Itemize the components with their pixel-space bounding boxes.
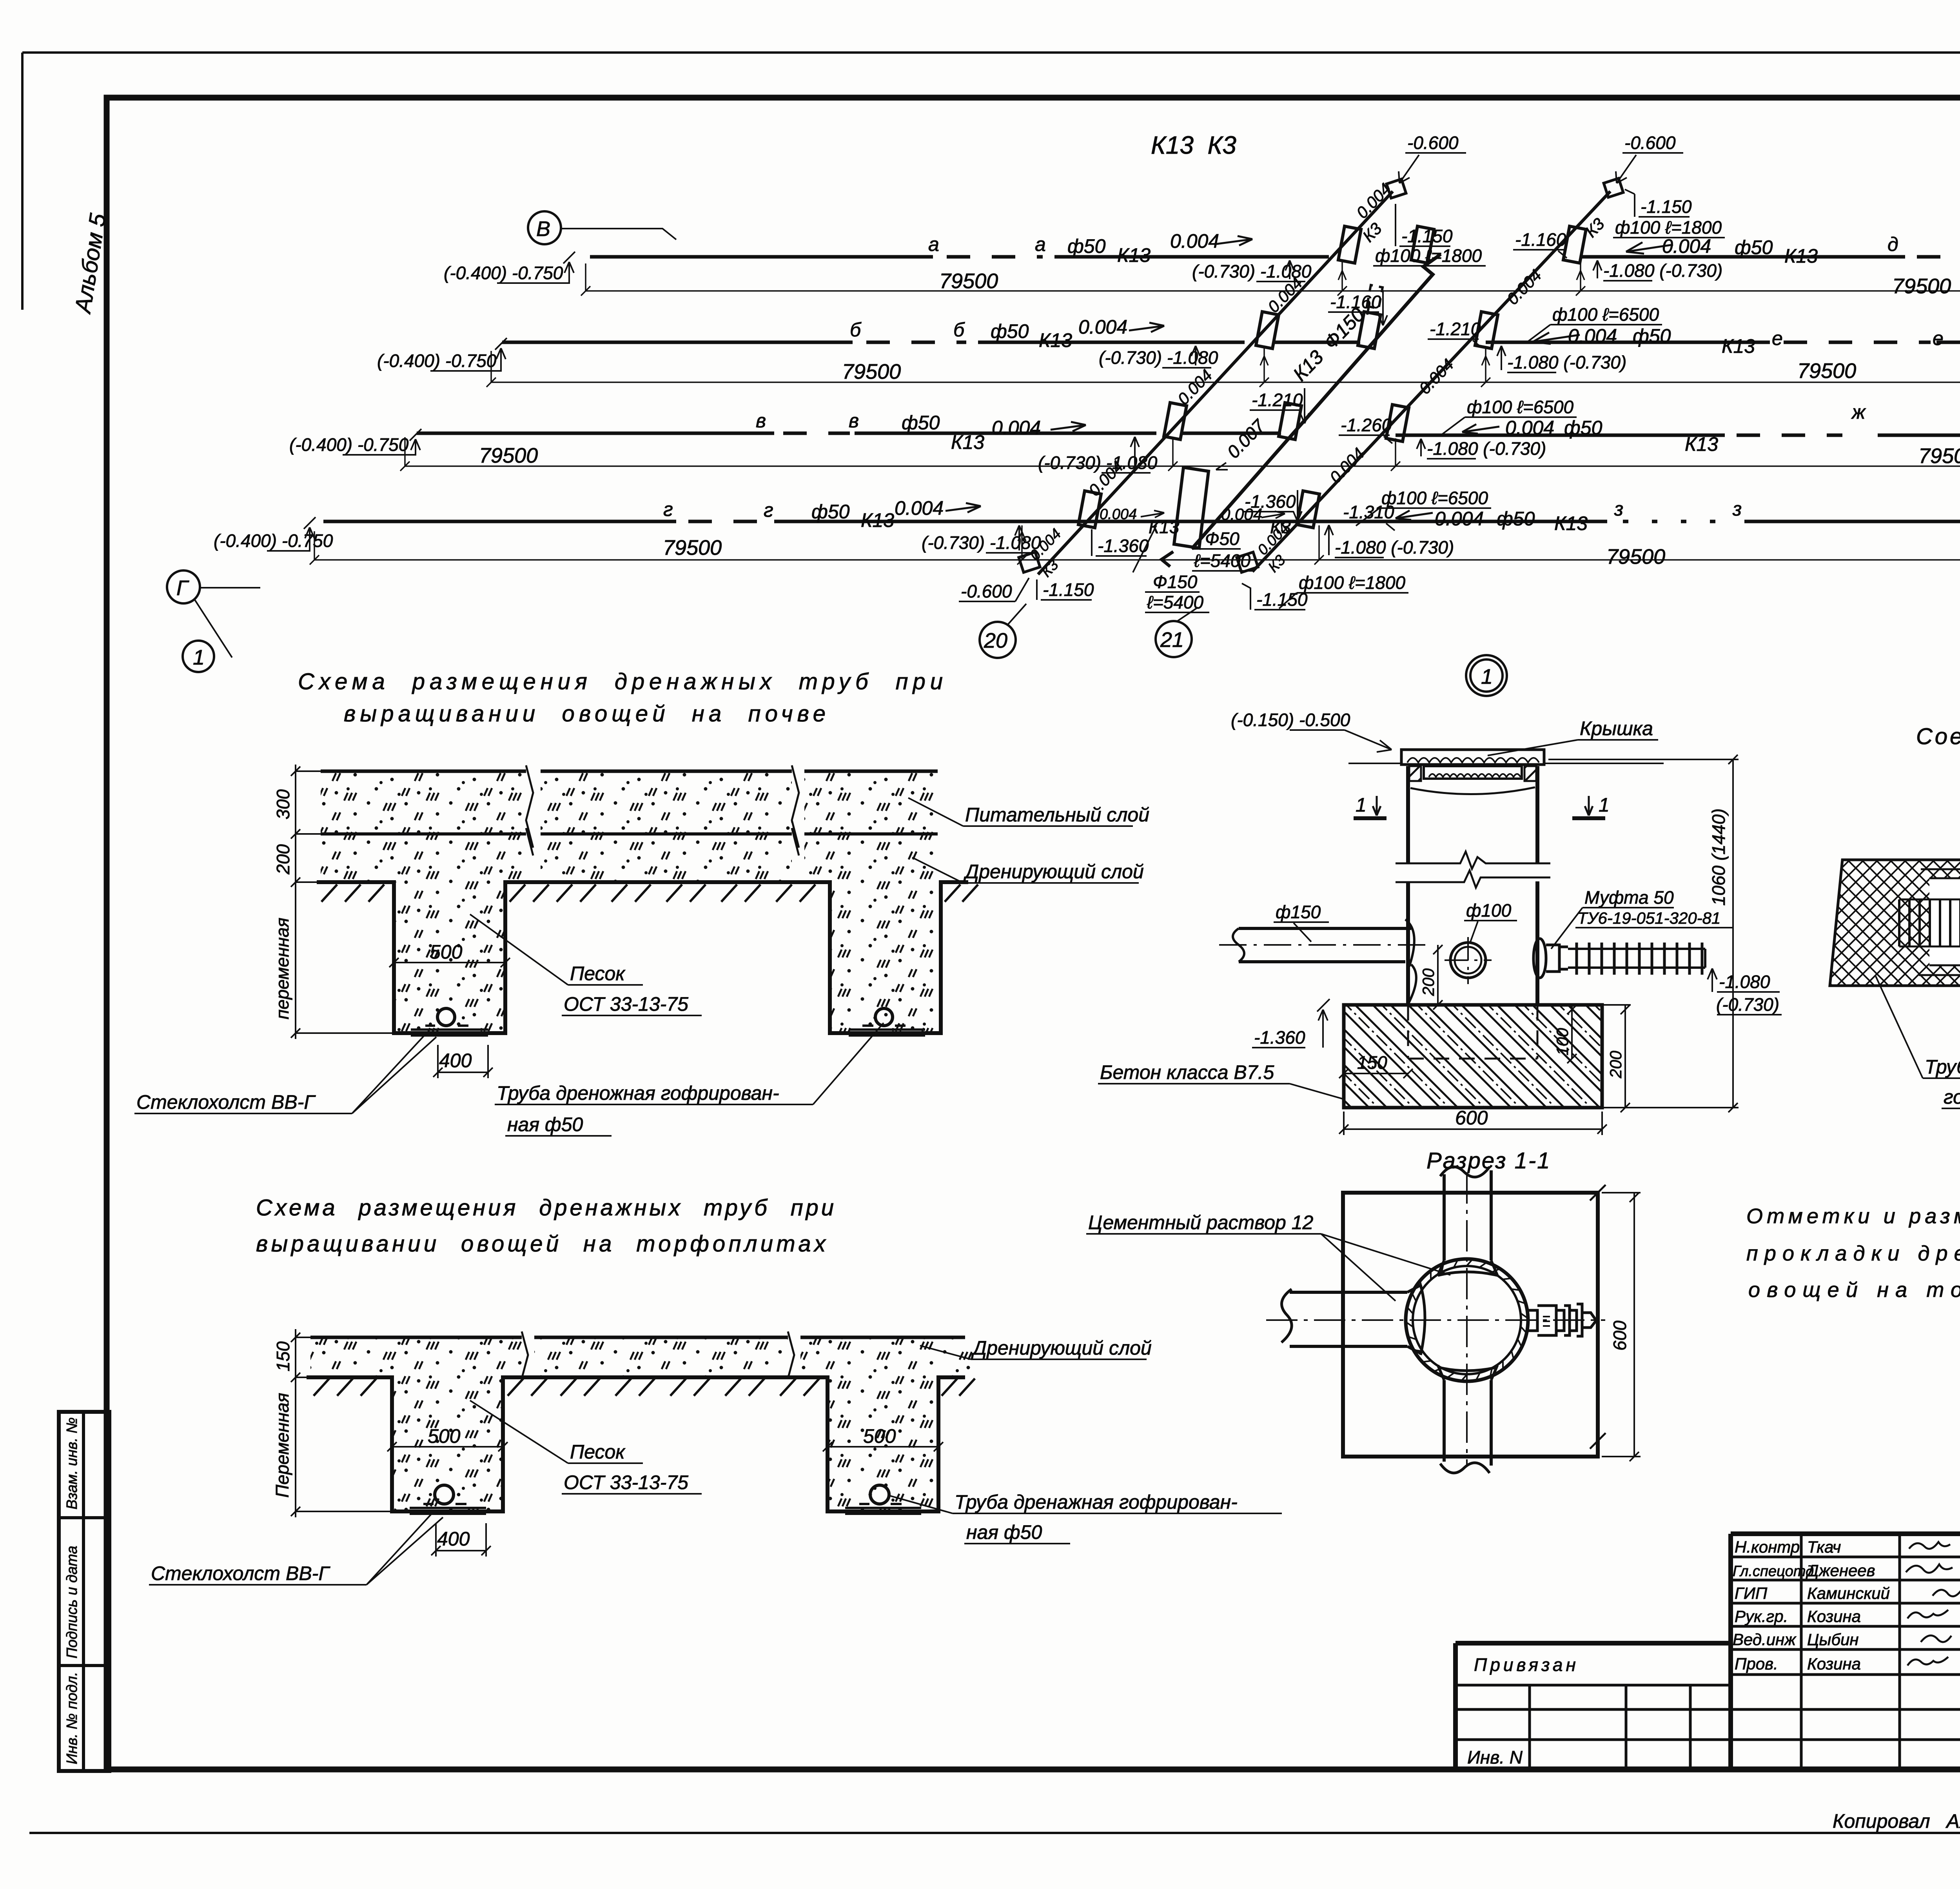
well on right collector at row ж bbox=[1386, 405, 1409, 441]
section 2 top surface line bbox=[310, 1336, 965, 1339]
section 1 surface hatching bbox=[321, 885, 978, 902]
svg-text:Рук.гр.: Рук.гр. bbox=[1735, 1607, 1788, 1626]
svg-text:Н.контр: Н.контр bbox=[1735, 1538, 1800, 1556]
svg-text:0.004: 0.004 bbox=[1505, 417, 1554, 439]
svg-text:Козина: Козина bbox=[1807, 1607, 1861, 1626]
svg-text:ф50: ф50 bbox=[1633, 325, 1671, 347]
svg-text:1: 1 bbox=[1481, 665, 1493, 688]
label (-0.150) -0.500 bbox=[1231, 710, 1392, 752]
collector К13 Ф150 (left, diagonal) bbox=[1161, 254, 1441, 567]
dimension line row в/ж 79500 bbox=[400, 437, 1960, 471]
dim 200 right rotated bbox=[1602, 1005, 1631, 1112]
label -1.160 right bbox=[1513, 229, 1567, 258]
staff row Гл.спецот Дженеев bbox=[1733, 1561, 1960, 1580]
well on right collector at row д bbox=[1563, 226, 1586, 263]
caption Разрез 1-1 bbox=[1426, 1148, 1551, 1173]
svg-text:79500: 79500 bbox=[479, 444, 538, 467]
svg-text:400: 400 bbox=[437, 1528, 470, 1550]
staff row Рук.гр. Козина bbox=[1735, 1607, 1960, 1626]
rotated 0.004 labels along right collector bbox=[1326, 266, 1545, 487]
well on К13Ф150 at row б bbox=[1358, 312, 1381, 349]
dim 400 (section 2) bbox=[431, 1523, 491, 1557]
svg-text:1060 (1440): 1060 (1440) bbox=[1708, 808, 1729, 906]
overall height dim 1060 (1440) bbox=[1548, 755, 1739, 1112]
svg-text:(-0.400) -0.750: (-0.400) -0.750 bbox=[214, 530, 333, 551]
drainage pipe in trench 1 bbox=[411, 1008, 488, 1035]
svg-text:1: 1 bbox=[1599, 794, 1610, 816]
svg-text:-1.360: -1.360 bbox=[1098, 536, 1149, 556]
section 2 surface hatching bbox=[314, 1379, 975, 1396]
svg-text:Труба дреножная гофрирован-: Труба дреножная гофрирован- bbox=[497, 1082, 779, 1104]
label -1.150 left top bbox=[1396, 204, 1453, 246]
dim delimiters row г bbox=[1017, 525, 1324, 565]
svg-text:г: г bbox=[764, 499, 773, 521]
dimension line row б/е 79500 bbox=[486, 351, 1960, 387]
svg-text:в: в bbox=[849, 410, 859, 432]
title block outline bbox=[1455, 1534, 1960, 1769]
svg-text:0.004: 0.004 bbox=[1221, 505, 1262, 523]
node circle 1 (axis) bbox=[183, 641, 214, 672]
label ф100 l=1800 left top bbox=[1373, 245, 1486, 266]
dim 200 left rotated bbox=[1419, 945, 1443, 1010]
label Труба дренажная гофрированная ф50 (joint) bbox=[1876, 976, 1960, 1108]
well on K3-left at row г bbox=[1078, 491, 1101, 528]
svg-text:-0.600: -0.600 bbox=[1407, 133, 1459, 153]
svg-text:150: 150 bbox=[1357, 1052, 1387, 1073]
label Песок ОСТ 33-13-75 bbox=[470, 914, 702, 1015]
svg-text:0.004: 0.004 bbox=[1078, 316, 1127, 338]
svg-text:Взам. инв. №: Взам. инв. № bbox=[64, 1417, 80, 1509]
label ф100 l=1800 bottom bbox=[1279, 572, 1408, 608]
rotated 0.004 К3 at left K3 bottom bbox=[1027, 526, 1064, 581]
label Крышка bbox=[1488, 717, 1658, 756]
svg-text:21: 21 bbox=[1160, 628, 1184, 652]
node circle 1 (detail ref, double ring) bbox=[1466, 655, 1507, 696]
dim 500 trench 1 (section 2) bbox=[387, 1425, 508, 1451]
section 1 top surface line bbox=[321, 770, 938, 773]
svg-text:Ф50: Ф50 bbox=[1205, 529, 1240, 549]
section 1 soil body bbox=[321, 771, 941, 1033]
svg-text:79500: 79500 bbox=[663, 536, 722, 559]
pipe row а (left) bbox=[590, 230, 1329, 282]
svg-text:ная ф50: ная ф50 bbox=[507, 1113, 583, 1135]
svg-text:Труба дренажная гофрирован-: Труба дренажная гофрирован- bbox=[955, 1491, 1238, 1513]
staff row Вед.инж Цыбин bbox=[1733, 1630, 1960, 1649]
svg-text:-0.600: -0.600 bbox=[1624, 133, 1676, 153]
dim 500 trench 2 (section 2) bbox=[823, 1425, 943, 1451]
svg-text:з: з bbox=[1614, 498, 1623, 520]
svg-text:ф50: ф50 bbox=[1067, 235, 1106, 257]
drainage pipe in trench 2 bbox=[849, 1008, 925, 1035]
svg-text:Дренирующий слой: Дренирующий слой bbox=[963, 861, 1144, 883]
svg-text:0.004: 0.004 bbox=[1170, 230, 1219, 252]
rotated 0.004 labels along K3-left bbox=[1085, 274, 1306, 499]
label -1.150 right top bbox=[1625, 189, 1692, 217]
svg-text:(-0.730) -1.080: (-0.730) -1.080 bbox=[1099, 347, 1218, 368]
svg-text:0.004: 0.004 bbox=[1662, 235, 1711, 257]
svg-text:ф150: ф150 bbox=[1276, 902, 1321, 922]
bottom pipe (plan) bbox=[1438, 1365, 1497, 1473]
rotated 0.004 К3 at right collector bottom bbox=[1254, 520, 1292, 576]
label -1.150 bottom left bbox=[1037, 579, 1094, 600]
section mark 1-1 bbox=[1354, 794, 1610, 818]
svg-text:0.004: 0.004 bbox=[1100, 506, 1137, 523]
svg-text:К13: К13 bbox=[1685, 433, 1718, 455]
svg-text:переменная: переменная bbox=[272, 918, 292, 1019]
well shaft walls bbox=[1396, 766, 1550, 1005]
svg-text:Муфта 50: Муфта 50 bbox=[1584, 887, 1674, 908]
svg-text:К13: К13 bbox=[1149, 517, 1180, 537]
left dimension chain section 2 bbox=[272, 1329, 390, 1517]
svg-text:Инв. № подл.: Инв. № подл. bbox=[64, 1672, 80, 1764]
hole Ф100 bbox=[1445, 937, 1492, 984]
node circle 20 bbox=[980, 604, 1026, 658]
bottom cluster labels row г/з bbox=[1100, 505, 1291, 537]
svg-text:Вед.инж: Вед.инж bbox=[1733, 1630, 1797, 1649]
dim 600 plan bbox=[1602, 1193, 1641, 1461]
label -0.600 right top bbox=[1616, 133, 1683, 183]
svg-text:1: 1 bbox=[1356, 794, 1367, 816]
label -1.160 left bbox=[1328, 290, 1387, 325]
svg-text:200: 200 bbox=[1606, 1050, 1625, 1079]
label -1.210 right bbox=[1428, 319, 1481, 347]
svg-text:500: 500 bbox=[428, 1425, 461, 1447]
svg-text:Дренирующий слой: Дренирующий слой bbox=[971, 1337, 1152, 1359]
svg-text:К13: К13 bbox=[1554, 512, 1588, 534]
dim 150 bbox=[1339, 1052, 1413, 1078]
svg-text:(-0.400) -0.750: (-0.400) -0.750 bbox=[444, 263, 563, 283]
dim delimiters row в bbox=[1168, 438, 1400, 471]
svg-text:300: 300 bbox=[273, 789, 293, 819]
label -1.360 left mid bbox=[1243, 490, 1302, 521]
svg-text:ф100 ℓ=6500: ф100 ℓ=6500 bbox=[1467, 397, 1573, 417]
dim delimiters row б bbox=[1259, 347, 1490, 387]
svg-text:79500: 79500 bbox=[1892, 274, 1951, 298]
label Песок ОСТ 33-13-75 section 2 bbox=[470, 1400, 702, 1494]
pipe row д (right) bbox=[1581, 233, 1960, 281]
svg-text:Песок: Песок bbox=[570, 1441, 626, 1463]
label -0.600 bottom left bbox=[959, 578, 1029, 601]
pipe stub row в between wells bbox=[1180, 432, 1281, 435]
diagonal collector K3/К13 right bbox=[1237, 178, 1623, 572]
svg-text:К13: К13 bbox=[861, 509, 894, 531]
well cover bbox=[1401, 750, 1544, 765]
svg-text:-1.150: -1.150 bbox=[1641, 196, 1692, 217]
right fitting (plan) bbox=[1528, 1304, 1596, 1336]
svg-text:Ф150: Ф150 bbox=[1153, 572, 1198, 592]
well on right collector at row з bbox=[1297, 491, 1319, 528]
svg-text:-1.210: -1.210 bbox=[1252, 390, 1303, 410]
label ф100 l=6500 lower bbox=[1356, 488, 1491, 526]
well on К13Ф150 at row а bbox=[1411, 226, 1434, 263]
pipe row в (left) bbox=[417, 410, 1158, 473]
dim delimiters row а bbox=[1338, 262, 1585, 296]
svg-text:ф50: ф50 bbox=[1564, 417, 1602, 439]
left pipe (plan) bbox=[1281, 1285, 1425, 1355]
svg-text:(-0.400) -0.750: (-0.400) -0.750 bbox=[289, 434, 409, 455]
svg-text:0.004: 0.004 bbox=[895, 497, 944, 519]
elevation mark row г left bbox=[214, 517, 333, 551]
pipe row г (left) bbox=[323, 497, 1319, 553]
svg-text:Ткач: Ткач bbox=[1807, 1538, 1841, 1556]
svg-text:ф100 ℓ=1800: ф100 ℓ=1800 bbox=[1299, 572, 1405, 593]
svg-text:е: е bbox=[1772, 327, 1783, 349]
rotated 0.007 label bbox=[1216, 415, 1269, 470]
corrugated drain pipe left bbox=[1899, 899, 1960, 946]
svg-text:ф50: ф50 bbox=[811, 501, 850, 523]
svg-text:ф50: ф50 bbox=[902, 412, 940, 434]
diagonal collector K3 left bbox=[1019, 179, 1406, 574]
label -1.150 bottom bbox=[1242, 583, 1308, 610]
svg-text:Г: Г bbox=[176, 576, 189, 600]
svg-text:150: 150 bbox=[273, 1341, 293, 1371]
label -1.210 left bbox=[1250, 388, 1309, 423]
svg-text:Схема размещения дренажных тру: Схема размещения дренажных труб при bbox=[298, 669, 943, 694]
svg-text:Инв. N: Инв. N bbox=[1467, 1747, 1523, 1767]
label ф100 bbox=[1464, 900, 1517, 943]
label Цементный раствор 12 bbox=[1086, 1212, 1450, 1301]
elevation mark row в left bbox=[289, 429, 421, 455]
svg-text:выращивании овощей на торфопли: выращивании овощей на торфоплитах bbox=[256, 1231, 826, 1257]
plan centerlines bbox=[1266, 1172, 1605, 1466]
svg-text:-1.150: -1.150 bbox=[1401, 226, 1453, 246]
svg-text:Подпись и дата: Подпись и дата bbox=[64, 1546, 80, 1658]
left dimension chain section 1 bbox=[272, 765, 392, 1039]
svg-text:20: 20 bbox=[984, 629, 1007, 652]
svg-text:(-0.730): (-0.730) bbox=[1716, 994, 1779, 1015]
svg-text:(-0.400) -0.750: (-0.400) -0.750 bbox=[377, 351, 497, 371]
label -0.600 left top bbox=[1399, 133, 1466, 183]
svg-text:Стеклохолст ВВ-Г: Стеклохолст ВВ-Г bbox=[136, 1091, 316, 1113]
label Труба дренажная гофрированная ф50 section 1 bbox=[495, 1023, 884, 1136]
label Ф150 l=5400 bbox=[1133, 525, 1209, 612]
svg-text:Дженеев: Дженеев bbox=[1806, 1561, 1875, 1580]
staff table grid bbox=[1731, 1534, 1960, 1769]
svg-text:ф50: ф50 bbox=[1497, 508, 1535, 530]
svg-text:гофрированная ф50: гофрированная ф50 bbox=[1944, 1086, 1960, 1108]
cover rim blocks bbox=[1409, 766, 1536, 794]
svg-text:Переменная: Переменная bbox=[272, 1393, 292, 1498]
svg-text:Пров.: Пров. bbox=[1735, 1655, 1778, 1673]
svg-text:в: в bbox=[756, 410, 766, 432]
elevation mark row а left bbox=[444, 252, 575, 283]
svg-text:Песок: Песок bbox=[570, 963, 626, 984]
svg-text:79500: 79500 bbox=[842, 360, 901, 383]
joint detail title bbox=[1916, 724, 1960, 749]
label -1.080 (-0.730) right of node bbox=[1708, 968, 1782, 1015]
dimension line row а/д 79500 bbox=[581, 263, 1960, 298]
section 1 title bbox=[298, 669, 943, 727]
svg-text:Стеклохолст ВВ-Г: Стеклохолст ВВ-Г bbox=[151, 1562, 330, 1584]
svg-text:79500: 79500 bbox=[939, 269, 998, 293]
dim 100 rotated bbox=[1553, 1005, 1577, 1063]
svg-text:В: В bbox=[536, 217, 550, 241]
svg-text:100: 100 bbox=[1553, 1028, 1572, 1055]
label Стеклохолст ВВ-Г section 1 bbox=[134, 1033, 436, 1113]
svg-text:б: б bbox=[953, 319, 965, 341]
well on K3-left at row б bbox=[1256, 312, 1279, 349]
svg-text:К13: К13 bbox=[1117, 244, 1151, 266]
svg-text:Бетон класса В7.5: Бетон класса В7.5 bbox=[1100, 1061, 1274, 1083]
section 1 ground line and trench profile bbox=[317, 882, 968, 1033]
section 2 title bbox=[256, 1195, 834, 1257]
svg-text:ф100 ℓ=1800: ф100 ℓ=1800 bbox=[1375, 245, 1482, 266]
pipe row е (right) bbox=[1486, 325, 1960, 372]
rotated label: Подпись и дата bbox=[64, 1546, 80, 1658]
svg-text:Труба дренажная: Труба дренажная bbox=[1925, 1056, 1960, 1078]
svg-text:К13 К3: К13 К3 bbox=[1151, 131, 1236, 159]
drainage pipe in trench 2 (section 2) bbox=[845, 1485, 921, 1514]
label ф100 l=6500 middle bbox=[1441, 397, 1577, 435]
label Стеклохолст ВВ-Г section 2 bbox=[149, 1514, 443, 1585]
svg-text:-1.080 (-0.730): -1.080 (-0.730) bbox=[1507, 352, 1626, 372]
svg-text:79500: 79500 bbox=[1797, 359, 1856, 383]
svg-text:б: б bbox=[850, 319, 862, 341]
heading K13 K3 bbox=[1151, 131, 1236, 159]
elevation mark row б left bbox=[377, 338, 507, 371]
svg-text:К13: К13 bbox=[951, 431, 984, 453]
rotated К3 and 0.004 on K3-left top bbox=[1353, 180, 1395, 245]
concrete base bbox=[1344, 1005, 1602, 1108]
well on K3-left at row в bbox=[1164, 403, 1187, 440]
svg-text:600: 600 bbox=[1455, 1107, 1488, 1129]
svg-text:е: е bbox=[1933, 327, 1944, 349]
svg-text:-1.260: -1.260 bbox=[1341, 415, 1392, 435]
rotated label: Инв. № подл. bbox=[64, 1672, 80, 1764]
pipe row з (right) bbox=[1319, 498, 1960, 558]
label ф100 l=6500 upper bbox=[1527, 304, 1662, 342]
svg-text:ф50: ф50 bbox=[1735, 236, 1773, 258]
svg-text:0.004: 0.004 bbox=[1568, 325, 1617, 347]
rotated label: Взам. инв. № bbox=[64, 1417, 80, 1509]
svg-text:К13: К13 bbox=[1722, 335, 1755, 357]
svg-text:ж: ж bbox=[1851, 401, 1866, 423]
pipe row ж (right) bbox=[1396, 401, 1960, 459]
label -1.260 right bbox=[1339, 415, 1392, 443]
svg-text:ф50: ф50 bbox=[991, 320, 1029, 342]
section 1 layer separator bbox=[321, 832, 938, 836]
svg-text:-1.210: -1.210 bbox=[1430, 319, 1481, 339]
section 2 ground line and trench profile bbox=[307, 1377, 965, 1511]
staff row Н.контр Ткач bbox=[1735, 1538, 1960, 1556]
svg-text:Схема размещения дренажных тру: Схема размещения дренажных труб при bbox=[256, 1195, 834, 1221]
well on right collector at row е bbox=[1475, 312, 1498, 349]
svg-text:ГИП: ГИП bbox=[1735, 1584, 1768, 1602]
node circle 21 bbox=[1156, 607, 1198, 657]
svg-text:д: д bbox=[1887, 233, 1898, 255]
svg-text:-1.080 (-0.730): -1.080 (-0.730) bbox=[1603, 260, 1722, 281]
staff row ГИП Каминский bbox=[1735, 1584, 1960, 1602]
left annex grid bbox=[1455, 1655, 1731, 1769]
copyist note bbox=[1833, 1810, 1960, 1832]
node circle Г bbox=[167, 570, 260, 658]
drainage pipe in trench 1 (section 2) bbox=[410, 1485, 486, 1514]
svg-text:Цыбин: Цыбин bbox=[1807, 1630, 1859, 1649]
label К3 ф100 l=1800 right top bbox=[1582, 214, 1725, 241]
svg-text:Цементный раствор 12: Цементный раствор 12 bbox=[1088, 1212, 1314, 1233]
svg-text:200: 200 bbox=[1419, 968, 1437, 996]
svg-text:Соединение дренажных труб: Соединение дренажных труб bbox=[1916, 724, 1960, 749]
well on К13Ф150 at row в bbox=[1279, 403, 1301, 440]
svg-text:400: 400 bbox=[439, 1050, 472, 1072]
svg-text:К13: К13 bbox=[1784, 245, 1818, 267]
label Дренирующий слой section 2 bbox=[920, 1337, 1152, 1359]
svg-text:0.004: 0.004 bbox=[992, 417, 1041, 439]
top pipe (plan) bbox=[1438, 1167, 1497, 1275]
section 1 break marks bbox=[526, 765, 799, 855]
svg-text:ℓ=5400: ℓ=5400 bbox=[1194, 550, 1250, 571]
ground line at cover bbox=[1348, 763, 1664, 764]
flag symbol near top of К13Ф150 bbox=[1367, 285, 1383, 318]
svg-text:-1.080: -1.080 bbox=[1719, 972, 1770, 992]
pipe stub row б between wells bbox=[1272, 341, 1360, 344]
svg-text:г: г bbox=[663, 498, 673, 520]
svg-text:Гл.спецотд: Гл.спецотд bbox=[1733, 1563, 1814, 1580]
svg-text:ОСТ 33-13-75: ОСТ 33-13-75 bbox=[564, 1471, 688, 1493]
svg-text:ТУ6-19-051-320-81: ТУ6-19-051-320-81 bbox=[1577, 909, 1720, 927]
svg-text:ОСТ 33-13-75: ОСТ 33-13-75 bbox=[564, 993, 688, 1015]
label Ф50 l=5400 bbox=[1192, 529, 1254, 571]
svg-text:1: 1 bbox=[193, 646, 205, 669]
dim 400 trench 1 bbox=[433, 1045, 493, 1078]
svg-text:500: 500 bbox=[863, 1425, 896, 1447]
svg-text:-1.360: -1.360 bbox=[1254, 1027, 1305, 1048]
label Труба дренажная гофрированная ф50 section 2 bbox=[890, 1491, 1282, 1544]
svg-text:ф100: ф100 bbox=[1466, 900, 1512, 921]
svg-text:-1.080 (-0.730): -1.080 (-0.730) bbox=[1427, 438, 1546, 459]
dim 500 trench 1 bbox=[389, 941, 510, 967]
well on K3-left at row а bbox=[1338, 226, 1361, 263]
label -1.360 bbox=[1252, 999, 1330, 1048]
plan square bbox=[1343, 1185, 1606, 1457]
svg-text:выращивании овощей на почве: выращивании овощей на почве bbox=[344, 701, 826, 727]
svg-text:Копировал Ахромова: Копировал Ахромова bbox=[1833, 1810, 1960, 1832]
svg-text:Крышка: Крышка bbox=[1580, 717, 1653, 739]
svg-text:600: 600 bbox=[1610, 1320, 1630, 1351]
svg-text:500: 500 bbox=[430, 941, 463, 963]
svg-text:-1.080 (-0.730): -1.080 (-0.730) bbox=[1335, 537, 1454, 558]
label Дренирующий слой bbox=[912, 857, 1144, 883]
svg-text:ф100 ℓ=6500: ф100 ℓ=6500 bbox=[1381, 488, 1488, 508]
svg-text:ф100 ℓ=6500: ф100 ℓ=6500 bbox=[1552, 304, 1659, 325]
svg-text:200: 200 bbox=[273, 844, 293, 875]
svg-text:з: з bbox=[1732, 498, 1742, 520]
label Бетон класса В7.5 bbox=[1098, 1061, 1345, 1099]
svg-text:-1.150: -1.150 bbox=[1256, 589, 1308, 610]
glass-fabric wrap band bbox=[1830, 860, 1960, 986]
dim 600 bbox=[1339, 1107, 1607, 1135]
coupling and corrugated pipe right bbox=[1534, 939, 1705, 978]
label ф150 bbox=[1274, 902, 1329, 942]
rotated К13 Ф150 label bbox=[1289, 303, 1369, 385]
album label: Альбом 5 (rotated) bbox=[70, 211, 111, 316]
svg-text:ная ф50: ная ф50 bbox=[966, 1521, 1042, 1543]
dimension line row г/з 79500 bbox=[310, 531, 1960, 569]
svg-text:а: а bbox=[928, 233, 939, 255]
label Питательный слой bbox=[908, 798, 1149, 826]
section 2 soil body bbox=[310, 1337, 972, 1511]
pipe row б (left) bbox=[502, 316, 1245, 368]
svg-text:-1.150: -1.150 bbox=[1043, 579, 1094, 600]
left margin boxes bbox=[59, 1412, 109, 1771]
label -1.360 bottom left bbox=[1092, 529, 1149, 556]
svg-text:-0.600: -0.600 bbox=[961, 581, 1012, 601]
svg-text:-1.160: -1.160 bbox=[1515, 229, 1566, 250]
label -1.310 right bbox=[1341, 502, 1395, 530]
node circle В bbox=[528, 211, 676, 244]
well ring bbox=[1405, 1259, 1529, 1382]
svg-text:ф100 ℓ=1800: ф100 ℓ=1800 bbox=[1615, 217, 1722, 238]
